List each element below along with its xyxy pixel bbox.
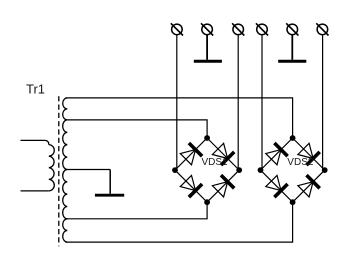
svg-text:VDS1: VDS1 <box>202 157 229 168</box>
diode VDS2 D1 (left-top) <box>266 143 288 165</box>
wire: terminal X1 to VDS1 left <box>176 35 178 169</box>
transformer Tr1 primary winding <box>21 140 55 191</box>
svg-text:Tr1: Tr1 <box>26 81 45 96</box>
transformer Tr1 secondary winding <box>63 98 68 242</box>
diode VDS1 D4 (bottom-right) <box>212 175 234 197</box>
ground (center tap) <box>95 194 124 197</box>
wire: secondary center tap to ground <box>66 169 111 171</box>
diode VDS2 D3 (left-bottom) <box>266 175 288 197</box>
diode VDS1 D1 (left-top) <box>180 143 202 165</box>
diode VDS1 D2 (top-right) <box>212 143 234 165</box>
node VDS2 top <box>290 135 296 141</box>
wire: terminal X5 to ground <box>291 35 293 60</box>
ground (terminal X2) <box>194 60 222 63</box>
node VDS1 top <box>204 135 210 141</box>
wire: terminal X4 to VDS2 left <box>261 35 263 169</box>
bridge rectifier VDS1 diamond <box>175 138 239 202</box>
diode VDS2 D4 (bottom-right) <box>298 175 320 197</box>
node VDS2 bottom <box>290 199 296 205</box>
wire: terminal X3 to VDS1 right <box>237 35 239 169</box>
terminal X5 <box>286 23 298 35</box>
node VDS1 left <box>172 167 178 173</box>
terminal X3 <box>232 23 244 35</box>
svg-text:VDS2: VDS2 <box>287 157 314 168</box>
transformer core (dashed) <box>58 96 60 246</box>
diode VDS1 D3 (left-bottom) <box>180 175 202 197</box>
wire: secondary tap1 to bridge VDS2 top <box>66 98 293 138</box>
bridge rectifier VDS2 diamond <box>261 138 325 202</box>
wire: secondary tap5 to bridge VDS2 bottom <box>66 202 293 242</box>
node VDS2 left <box>258 167 264 173</box>
wire: secondary tap4 to bridge VDS1 bottom <box>66 202 208 219</box>
wire: secondary tap2 to bridge VDS1 top <box>66 120 208 138</box>
terminal X2 <box>201 23 213 35</box>
terminal X4 <box>256 23 268 35</box>
ground (terminal X5) <box>278 60 306 63</box>
node VDS1 right <box>236 167 242 173</box>
wire: terminal X6 to VDS2 right <box>322 35 324 169</box>
node VDS1 bottom <box>204 199 210 205</box>
diode VDS2 D2 (top-right) <box>298 143 320 165</box>
wire: terminal X2 to ground <box>206 35 208 60</box>
node VDS2 right <box>322 167 328 173</box>
terminal X6 <box>316 23 328 35</box>
terminal X1 <box>171 23 183 35</box>
